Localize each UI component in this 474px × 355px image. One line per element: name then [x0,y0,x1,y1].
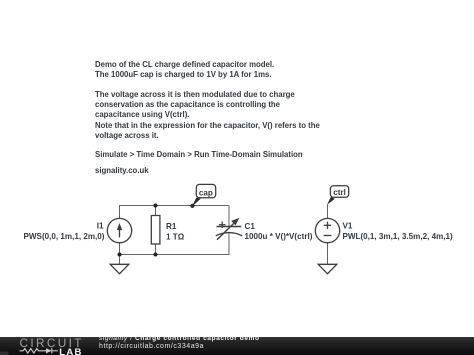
wire: right rail into C1 top plate [228,206,230,227]
footer title [99,335,260,342]
resistor R1 [151,216,160,245]
wire: I1 bottom stub [119,243,121,255]
footer bar [0,337,474,355]
ground under V1 [318,264,337,274]
node: junction dot bottom of I1/ground [118,253,122,257]
node: junction dot bottom of R1 [154,253,158,257]
svg-text:LAB: LAB [59,347,82,355]
flag box cap [196,184,215,197]
wire: top rail from I1 to C1 corner [120,206,230,219]
wire: ctrl flag stub to V1 [327,205,329,219]
plus sign of C1 [219,222,226,229]
annotation paragraph 2 [95,90,320,142]
footer url [99,343,204,350]
annotation paragraph 1 [95,60,274,81]
voltage source V1 [315,218,339,242]
flag pointer for ctrl [327,197,335,205]
wire: R1 bottom stub [155,244,157,255]
logo resistor squiggle and diode [20,348,58,353]
annotation paragraph 4 [95,166,149,176]
current source I1 [107,218,131,242]
logo corner highlight [0,352,9,355]
node: junction dot top of R1 [154,204,158,208]
annotation paragraph 3 [95,150,303,160]
flag box ctrl [330,186,348,198]
wire: ground stub under V1 [327,243,329,264]
wire: C1 bottom to bottom rail corner [120,233,230,255]
wire: ground stub under I1 [119,255,121,265]
ground under I1 [110,264,129,274]
flag pointer for cap [192,198,201,207]
wire: R1 top stub [155,206,157,216]
capacitor C1 (variable, polarized) [216,221,242,239]
